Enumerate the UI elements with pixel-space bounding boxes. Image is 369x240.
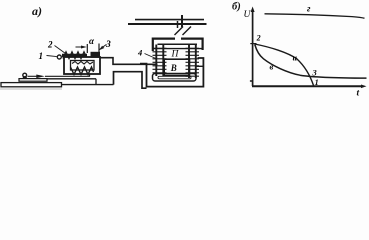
enclosure box bbox=[140, 58, 203, 87]
transformer yoke bottom edge bbox=[153, 48, 203, 50]
yoke winding zigzag bbox=[63, 52, 87, 59]
svg-text:и: и bbox=[293, 54, 298, 63]
air-gap tick right bbox=[98, 44, 100, 54]
rail shadow bbox=[0, 88, 62, 90]
svg-text:В: В bbox=[170, 63, 177, 73]
point 2 tick bbox=[250, 43, 256, 45]
origin tick bbox=[250, 80, 253, 82]
U axis bbox=[252, 9, 254, 86]
svg-text:1: 1 bbox=[39, 51, 44, 61]
electromagnet outer box bbox=[64, 57, 100, 74]
secondary loop outer bbox=[153, 74, 197, 82]
leader for 1 bbox=[47, 56, 57, 57]
svg-text:3: 3 bbox=[312, 68, 318, 78]
overhead line L2 bbox=[128, 23, 207, 25]
svg-text:б): б) bbox=[232, 2, 241, 13]
svg-text:α: α bbox=[89, 36, 95, 46]
t axis bbox=[252, 85, 363, 87]
svg-text:2: 2 bbox=[256, 34, 261, 43]
winding П right leg bbox=[186, 45, 200, 79]
dimension arrow left bbox=[76, 46, 82, 48]
svg-text:U: U bbox=[244, 10, 252, 20]
carriage platform bbox=[19, 79, 47, 82]
transformer T1 top yoke bbox=[153, 39, 203, 51]
svg-text:в: в bbox=[270, 62, 274, 72]
terminal circle bbox=[57, 55, 61, 59]
leader for 2 bbox=[55, 46, 66, 54]
roller circle bbox=[23, 73, 27, 77]
tap post bbox=[181, 15, 183, 27]
curve в bbox=[255, 45, 367, 79]
electromagnet yoke bar left part bbox=[62, 54, 87, 58]
secondary window box bbox=[164, 59, 189, 75]
svg-text:а): а) bbox=[32, 4, 42, 18]
tap post short bbox=[177, 21, 179, 28]
tap slash 2 bbox=[183, 27, 192, 36]
wire lower horizontal bbox=[62, 84, 114, 86]
wire upper from device to transformer bbox=[100, 58, 158, 65]
tap slash 1 bbox=[175, 27, 184, 36]
air-gap tick left bbox=[86, 44, 88, 53]
lower coil zigzag bbox=[71, 67, 94, 75]
curve и bbox=[255, 44, 314, 86]
svg-text:1: 1 bbox=[315, 77, 319, 87]
leader for 4 bbox=[145, 54, 158, 60]
winding П left leg bbox=[153, 45, 167, 77]
electromagnet inner box bbox=[71, 61, 95, 71]
velocity arrow shaft bbox=[28, 75, 37, 77]
overhead line L1 bbox=[135, 19, 204, 21]
velocity arrow head bbox=[36, 75, 45, 79]
curve г bbox=[265, 14, 365, 18]
wire winding to right wall bbox=[197, 65, 204, 67]
dimension arrow right bbox=[100, 44, 107, 49]
svg-text:2: 2 bbox=[47, 40, 53, 50]
transformer core inner top edge bbox=[158, 43, 198, 45]
roller pedestal bbox=[22, 76, 27, 79]
svg-text:t: t bbox=[357, 89, 360, 99]
U axis arrowhead bbox=[251, 7, 255, 13]
svg-text:3: 3 bbox=[105, 40, 111, 50]
svg-text:г: г bbox=[307, 5, 311, 15]
t axis arrowhead bbox=[361, 85, 367, 89]
secondary loop inner bbox=[158, 76, 191, 79]
rail bar bbox=[1, 83, 62, 87]
wire bridge to enclosure bbox=[114, 72, 147, 89]
inner coil turns bbox=[72, 62, 93, 65]
wire from roller arrow bbox=[45, 75, 90, 77]
svg-text:4: 4 bbox=[137, 48, 142, 58]
electromagnet yoke bar right part bbox=[91, 52, 101, 58]
wire staircase under device bbox=[48, 75, 97, 85]
svg-text:П: П bbox=[171, 50, 180, 60]
